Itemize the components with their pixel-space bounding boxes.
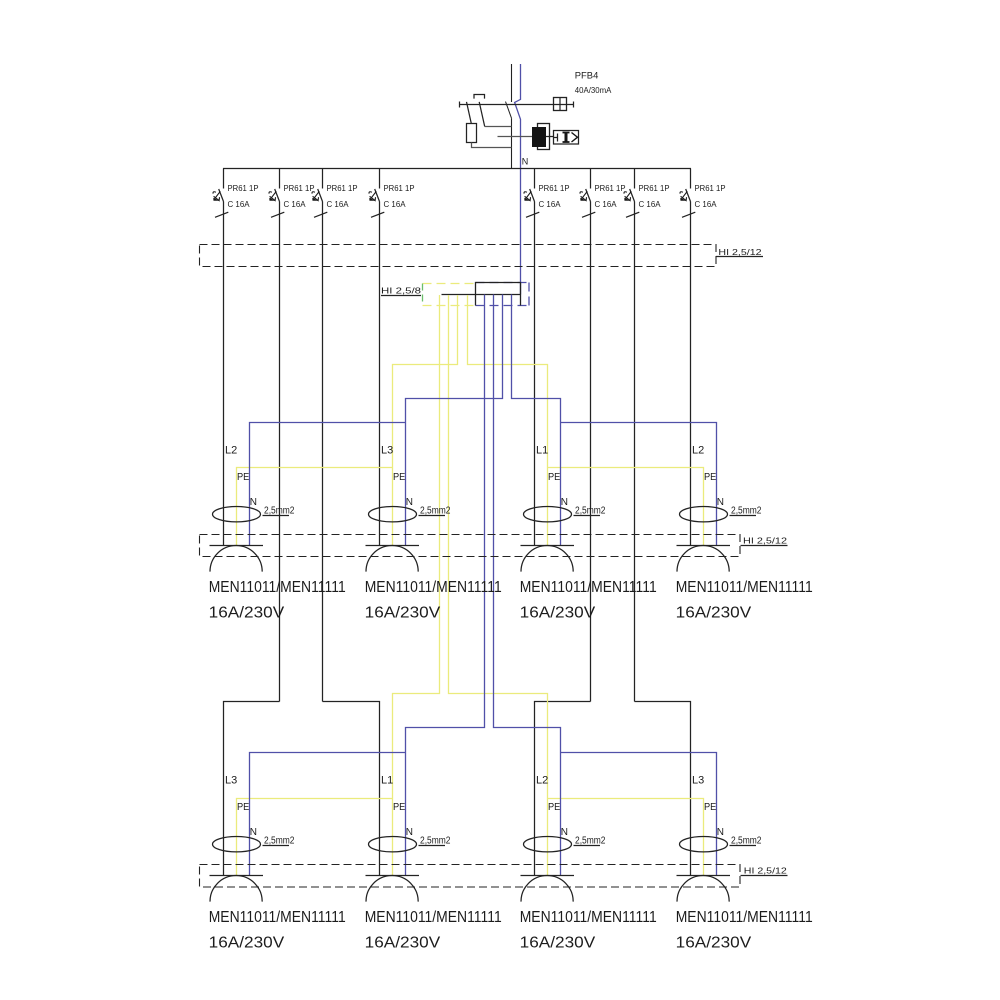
circuit breaker F5 PR61 1P C16A (524, 169, 539, 218)
svg-text:L3: L3 (225, 775, 237, 787)
svg-text:MEN11011/MEN11111: MEN11011/MEN11111 (209, 579, 346, 596)
svg-text:C 16A: C 16A (384, 200, 407, 209)
wire phase branch x=322.5 to bottom row (322, 202, 324, 702)
wiring duct HI 2,5/12 middle (200, 535, 741, 557)
svg-text:PFB4: PFB4 (575, 70, 599, 80)
wire PE daisy X6-X5 (237, 799, 393, 876)
svg-text:N: N (717, 827, 724, 838)
label leader line (730, 845, 757, 847)
svg-text:L1: L1 (536, 445, 548, 457)
wire phase branch x=690.5 to top socket (690, 202, 692, 546)
label leader line (730, 515, 757, 517)
circuit breaker F1 PR61 1P C16A (213, 169, 228, 218)
wire PE riser 1 (to bottom row, socket X6) (393, 295, 440, 876)
wire phase branch x=634.5 to bottom row (634, 202, 636, 702)
label leader line (574, 515, 601, 517)
N rail dashed box (blue) (476, 283, 530, 306)
svg-text:16A/230V: 16A/230V (520, 604, 596, 621)
svg-text:PR61 1P: PR61 1P (639, 184, 670, 193)
wiring duct HI 2,5/12 top (200, 245, 717, 267)
svg-text:N: N (250, 497, 257, 508)
wire PE riser 2 (to bottom row, socket X7) (449, 295, 548, 876)
svg-text:PR61 1P: PR61 1P (284, 184, 315, 193)
svg-text:L2: L2 (692, 445, 704, 457)
wire phase jog F2 to socket X5 (224, 702, 280, 876)
svg-text:PR61 1P: PR61 1P (228, 184, 259, 193)
label underline (716, 256, 763, 258)
CT toroid window (538, 124, 550, 150)
test contact blade 2 (479, 102, 485, 127)
svg-text:C 16A: C 16A (595, 200, 618, 209)
wire N daisy X7-X8 (561, 753, 717, 876)
svg-text:L3: L3 (381, 445, 393, 457)
circuit breaker F7 PR61 1P C16A (624, 169, 639, 218)
test contact blade 1 (467, 102, 472, 124)
svg-text:L2: L2 (536, 775, 548, 787)
terminal tick left (459, 102, 461, 108)
test button linkage bracket (474, 95, 485, 99)
svg-text:16A/230V: 16A/230V (520, 934, 596, 951)
svg-text:16A/230V: 16A/230V (676, 604, 752, 621)
socket outlet X5 L3 (210, 837, 264, 902)
PE rail dashed box (yellow) (423, 284, 476, 306)
terminal block X1 (crossed square) (554, 98, 567, 111)
svg-text:PR61 1P: PR61 1P (539, 184, 570, 193)
svg-text:MEN11011/MEN11111: MEN11011/MEN11111 (520, 579, 657, 596)
svg-text:16A/230V: 16A/230V (209, 934, 285, 951)
label leader line (574, 845, 601, 847)
wire PE riser 4 (to socket X3) (468, 295, 548, 546)
svg-text:C 16A: C 16A (639, 200, 662, 209)
svg-text:40A/30mA: 40A/30mA (575, 86, 612, 95)
svg-text:N: N (406, 497, 413, 508)
svg-text:C 16A: C 16A (539, 200, 562, 209)
wiring duct HI 2,5/12 bottom (200, 865, 741, 888)
svg-text:N: N (561, 497, 568, 508)
svg-text:PR61 1P: PR61 1P (327, 184, 358, 193)
RCD test circuit wire (460, 104, 574, 106)
svg-text:16A/230V: 16A/230V (209, 604, 285, 621)
trip unit input stub (554, 137, 559, 139)
wire incoming N (blue) through RCD N-pole contact (515, 64, 521, 295)
svg-text:L1: L1 (381, 775, 393, 787)
circuit breaker F6 PR61 1P C16A (580, 169, 595, 218)
trip unit tick (557, 134, 559, 142)
circuit breaker F4 PR61 1P C16A (369, 169, 384, 218)
svg-text:PE: PE (237, 471, 249, 483)
wire phase jog F6 to socket X7 (535, 702, 591, 876)
CT primary conductor (498, 136, 533, 138)
svg-text:PE: PE (704, 471, 716, 483)
circuit breaker F8 PR61 1P C16A (680, 169, 695, 218)
trip unit I> box (554, 131, 579, 145)
circuit breaker F2 PR61 1P C16A (269, 169, 284, 218)
wire N riser 1 (to bottom row, socket X6) (406, 295, 485, 876)
svg-text:PE: PE (548, 471, 560, 483)
test resistor R1 (467, 124, 477, 143)
svg-text:PE: PE (237, 801, 249, 813)
wire N riser 4 (to socket X3) (512, 295, 561, 546)
N rail bar (442, 294, 521, 296)
svg-text:N: N (561, 827, 568, 838)
socket outlet X6 L1 (366, 837, 420, 902)
svg-text:MEN11011/MEN11111: MEN11011/MEN11111 (676, 909, 813, 926)
svg-text:16A/230V: 16A/230V (365, 934, 441, 951)
svg-text:C 16A: C 16A (228, 200, 251, 209)
svg-text:HI 2,5/12: HI 2,5/12 (743, 537, 788, 546)
wire PE daisy X2-X1 (237, 468, 393, 546)
wire phase branch x=279.5 to bottom row (279, 202, 281, 702)
wire PE daisy X3-X4 (548, 468, 704, 546)
label leader line (263, 515, 290, 517)
svg-text:L2: L2 (225, 445, 237, 457)
svg-text:C 16A: C 16A (695, 200, 718, 209)
socket outlet X8 L3 (677, 837, 731, 902)
wire N daisy X3-X4 (561, 423, 717, 546)
svg-text:N: N (406, 827, 413, 838)
wire CT to trip unit (546, 136, 554, 138)
wire test contact 2 to L (485, 126, 512, 128)
svg-text:MEN11011/MEN11111: MEN11011/MEN11111 (676, 579, 813, 596)
svg-text:16A/230V: 16A/230V (365, 604, 441, 621)
wire phase jog F3 to socket X6 (323, 702, 380, 876)
trip unit > symbol (572, 133, 578, 143)
wire phase branch x=590.5 to bottom row (590, 202, 592, 702)
terminal tick right (573, 102, 575, 108)
svg-text:N: N (717, 497, 724, 508)
svg-text:HI 2,5/12: HI 2,5/12 (744, 866, 788, 875)
svg-text:PE: PE (393, 801, 405, 813)
label underline (741, 545, 788, 547)
socket outlet X2 L3 (366, 507, 420, 572)
svg-text:PR61 1P: PR61 1P (384, 184, 415, 193)
wire N riser 3 (to socket X2) (406, 295, 503, 546)
svg-text:MEN11011/MEN11111: MEN11011/MEN11111 (520, 909, 657, 926)
busbar L (223, 168, 691, 170)
svg-text:MEN11011/MEN11111: MEN11011/MEN11111 (209, 909, 346, 926)
socket outlet X3 L1 (521, 507, 575, 572)
wire phase branch x=534.5 to top socket (534, 202, 536, 546)
svg-text:N: N (522, 156, 529, 166)
svg-text:C 16A: C 16A (327, 200, 350, 209)
svg-text:C 16A: C 16A (284, 200, 307, 209)
wire PE daisy X7-X8 (548, 799, 704, 876)
wire phase branch x=223.5 to top socket (223, 202, 225, 546)
circuit breaker F3 PR61 1P C16A (312, 169, 327, 218)
wire N daisy X2-X1 (250, 423, 406, 546)
label underline (381, 295, 421, 297)
svg-text:PE: PE (548, 801, 560, 813)
wire N daisy X6-X5 (250, 753, 406, 876)
svg-text:PR61 1P: PR61 1P (595, 184, 626, 193)
label leader line (263, 845, 290, 847)
label leader line (419, 515, 446, 517)
wire phase branch x=379.5 to top socket (379, 202, 381, 546)
svg-text:PE: PE (393, 471, 405, 483)
wire resistor to L (472, 143, 512, 148)
svg-text:N: N (250, 827, 257, 838)
wire N riser 2 (to bottom row, socket X7) (494, 295, 561, 876)
wire PE riser 3 (to socket X2) (393, 295, 458, 546)
label leader line (419, 845, 446, 847)
wire phase jog F7 to socket X8 (635, 702, 691, 876)
socket outlet X4 L2 (677, 507, 731, 572)
svg-text:MEN11011/MEN11111: MEN11011/MEN11111 (365, 579, 502, 596)
wire L from RCD to busbar (511, 118, 513, 168)
N rail terminal block (black, open bottom) (476, 283, 521, 306)
PE rail dashed edge (green) (422, 284, 424, 306)
socket outlet X7 L2 (521, 837, 575, 902)
label underline (741, 875, 788, 877)
svg-text:PR61 1P: PR61 1P (695, 184, 726, 193)
svg-text:L3: L3 (692, 775, 704, 787)
CT core (filled) (532, 127, 546, 147)
trip unit I symbol (565, 132, 568, 142)
svg-text:HI 2,5/8: HI 2,5/8 (381, 286, 422, 295)
wire incoming L (511, 64, 513, 102)
svg-text:PE: PE (704, 801, 716, 813)
svg-text:MEN11011/MEN11111: MEN11011/MEN11111 (365, 909, 502, 926)
svg-text:HI 2,5/12: HI 2,5/12 (718, 248, 762, 257)
svg-text:16A/230V: 16A/230V (676, 934, 752, 951)
socket outlet X1 L2 (210, 507, 264, 572)
RCD Q0 L-pole contact blade (506, 102, 512, 119)
